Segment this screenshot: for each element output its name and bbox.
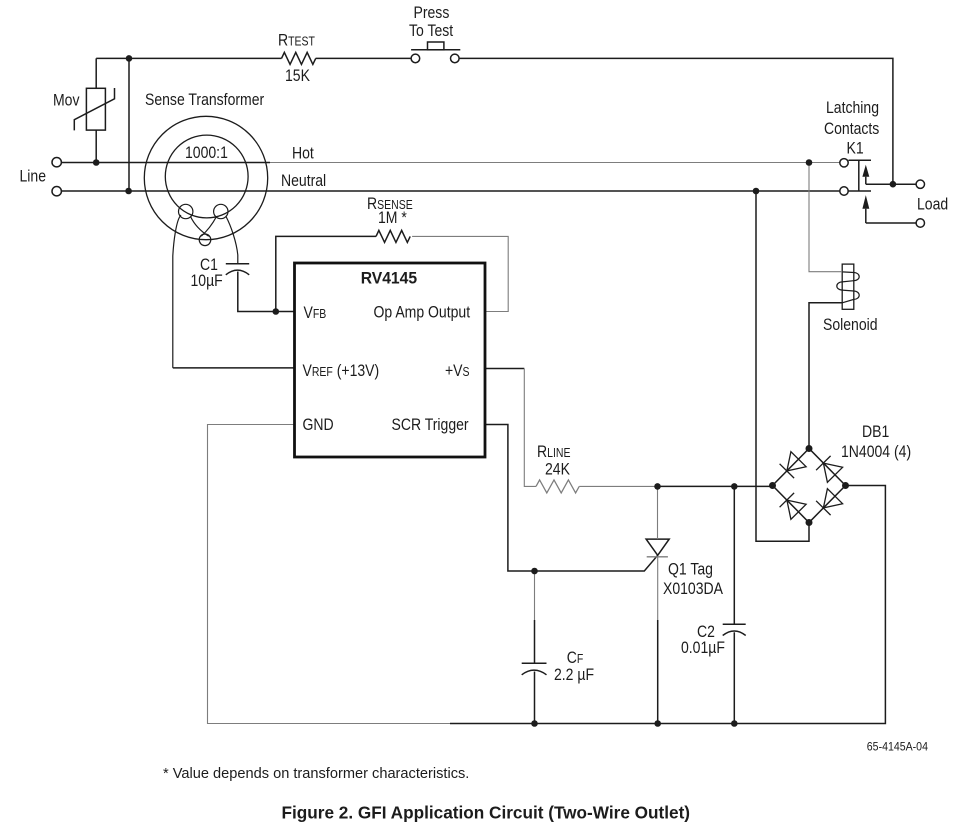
svg-text:1000:1: 1000:1 [185,144,228,162]
svg-text:Neutral: Neutral [281,172,326,190]
svg-text:2.2 µF: 2.2 µF [554,666,594,684]
svg-text:0.01µF: 0.01µF [681,639,725,657]
svg-text:Load: Load [917,195,948,213]
svg-text:GND: GND [303,416,334,434]
svg-text:Q1 Tag: Q1 Tag [668,560,713,578]
svg-text:DB1: DB1 [862,423,889,441]
svg-text:24K: 24K [545,460,571,478]
svg-text:1N4004 (4): 1N4004 (4) [841,443,911,461]
svg-text:X0103DA: X0103DA [663,580,724,598]
svg-text:15K: 15K [285,67,311,85]
svg-text:Hot: Hot [292,144,314,162]
svg-text:10µF: 10µF [191,272,223,290]
svg-text:Figure 2. GFI Application Circ: Figure 2. GFI Application Circuit (Two-W… [282,803,691,823]
svg-text:Press: Press [414,4,450,22]
svg-text:Latching: Latching [826,99,879,117]
svg-text:Contacts: Contacts [824,120,880,138]
svg-text:65-4145A-04: 65-4145A-04 [867,741,929,754]
svg-text:To Test: To Test [409,22,454,40]
svg-text:SCR Trigger: SCR Trigger [392,416,469,434]
svg-text:* Value depends on transformer: * Value depends on transformer character… [163,766,469,782]
svg-text:Line: Line [20,167,47,185]
svg-text:Solenoid: Solenoid [823,316,878,334]
svg-text:1M *: 1M * [378,209,407,227]
svg-text:Sense Transformer: Sense Transformer [145,91,264,109]
svg-text:Mov: Mov [53,91,80,109]
svg-text:Op Amp Output: Op Amp Output [374,303,471,321]
svg-text:K1: K1 [847,139,864,157]
svg-text:RV4145: RV4145 [361,269,417,288]
